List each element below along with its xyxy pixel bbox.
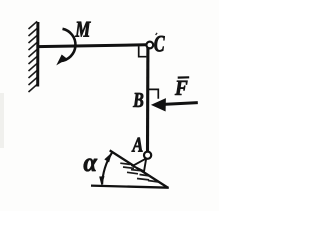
right-angle mark at B [149, 89, 159, 98]
C apostrophe tick [156, 33, 158, 35]
page background smudge [0, 93, 4, 148]
moment M arc arrow [61, 29, 76, 61]
force F arrowhead [151, 98, 166, 111]
label C [154, 36, 164, 52]
label F with overbar [175, 81, 188, 95]
support triangle under pin A [133, 158, 146, 171]
alpha arc bottom arrowhead [99, 176, 104, 185]
alpha angle arc [102, 153, 112, 185]
wall hatching [29, 21, 38, 92]
label A [132, 138, 143, 152]
node A pin circle [144, 152, 151, 159]
right-angle mark at C [139, 46, 147, 57]
vertical member C-B-A [146, 47, 149, 153]
node C pin circle [146, 42, 153, 49]
moment M arrowhead [56, 55, 67, 66]
label M [75, 22, 91, 37]
ground base line [91, 186, 169, 188]
incline hatch dashes [120, 163, 158, 182]
inclined surface line [110, 150, 168, 187]
label B [133, 93, 143, 107]
force F shaft [164, 103, 198, 105]
wall face line [36, 22, 39, 87]
alpha arc top arrowhead [104, 152, 112, 162]
beam wall-to-C (horizontal member) [38, 45, 146, 47]
label alpha [84, 159, 98, 172]
